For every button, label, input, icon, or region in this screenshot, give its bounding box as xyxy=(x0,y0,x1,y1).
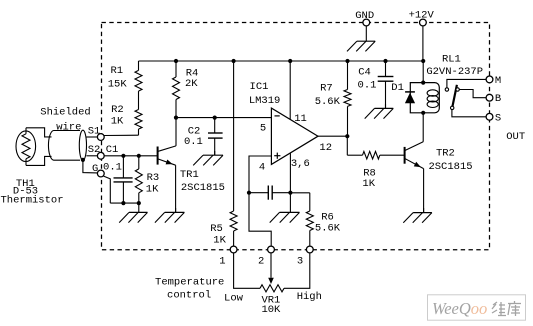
svg-text:12: 12 xyxy=(319,142,332,154)
svg-text:LM319: LM319 xyxy=(249,95,281,107)
svg-text:Shielded: Shielded xyxy=(40,106,90,118)
svg-text:R3: R3 xyxy=(147,172,160,184)
svg-text:Temperature: Temperature xyxy=(155,277,224,289)
svg-text:5.6K: 5.6K xyxy=(315,96,341,108)
svg-text:11: 11 xyxy=(294,113,307,125)
svg-text:G: G xyxy=(92,163,98,175)
svg-text:1K: 1K xyxy=(111,116,124,128)
svg-text:2: 2 xyxy=(258,256,264,268)
svg-text:Low: Low xyxy=(224,292,244,304)
svg-text:OUT: OUT xyxy=(506,131,525,143)
svg-text:Thermistor: Thermistor xyxy=(0,195,63,207)
svg-text:R5: R5 xyxy=(210,223,223,235)
svg-text:C1: C1 xyxy=(106,144,119,156)
svg-text:TR2: TR2 xyxy=(436,147,455,159)
svg-text:B: B xyxy=(495,93,501,105)
svg-text:1K: 1K xyxy=(362,178,375,190)
svg-text:M: M xyxy=(495,75,501,87)
svg-text:GND: GND xyxy=(355,10,374,22)
svg-text:RL1: RL1 xyxy=(442,53,461,65)
svg-text:0.1: 0.1 xyxy=(184,136,203,148)
svg-text:R1: R1 xyxy=(110,65,123,77)
svg-text:3,6: 3,6 xyxy=(291,158,310,170)
svg-text:S1: S1 xyxy=(88,126,101,138)
svg-text:control: control xyxy=(167,290,211,302)
svg-text:D1: D1 xyxy=(391,82,404,94)
svg-text:WeeQoo: WeeQoo xyxy=(432,299,487,318)
svg-text:G2VN-237P: G2VN-237P xyxy=(426,66,483,78)
svg-text:2SC1815: 2SC1815 xyxy=(181,182,225,194)
svg-text:R2: R2 xyxy=(111,104,124,116)
svg-text:C4: C4 xyxy=(358,66,371,78)
svg-text:R7: R7 xyxy=(320,83,333,95)
svg-text:5.6K: 5.6K xyxy=(315,222,341,234)
svg-text:IC1: IC1 xyxy=(250,81,269,93)
svg-text:1: 1 xyxy=(219,256,225,268)
svg-text:2SC1815: 2SC1815 xyxy=(428,161,472,173)
svg-text:S2: S2 xyxy=(88,144,101,156)
svg-text:5: 5 xyxy=(260,123,266,135)
svg-text:10K: 10K xyxy=(261,304,281,316)
svg-text:TR1: TR1 xyxy=(180,169,199,181)
svg-text:4: 4 xyxy=(259,162,265,174)
svg-text:0.1: 0.1 xyxy=(358,79,377,91)
svg-text:3: 3 xyxy=(297,256,303,268)
svg-text:+12V: +12V xyxy=(409,9,435,21)
svg-text:High: High xyxy=(297,291,322,303)
svg-text:1K: 1K xyxy=(213,234,226,246)
svg-text:0.1: 0.1 xyxy=(103,161,122,173)
svg-text:1K: 1K xyxy=(146,183,159,195)
svg-text:S: S xyxy=(495,112,501,124)
svg-text:2K: 2K xyxy=(185,78,198,90)
svg-text:15K: 15K xyxy=(108,79,128,91)
svg-text:wire: wire xyxy=(56,122,81,134)
